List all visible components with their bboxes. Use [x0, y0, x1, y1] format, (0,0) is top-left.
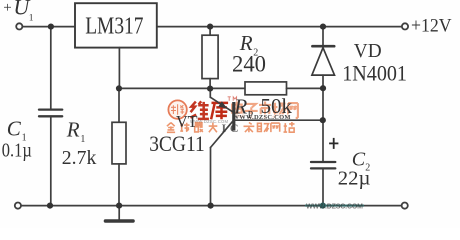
junction dot C2 bottom: [320, 203, 326, 209]
ground bar: [105, 219, 133, 222]
junction dot diode top: [320, 24, 326, 30]
terminal input top-left: [16, 23, 22, 29]
watermark char 维: [190, 101, 209, 119]
svg-text:0.1µ: 0.1µ: [2, 141, 32, 162]
label C1: [7, 117, 27, 144]
ground stub: [118, 206, 120, 220]
LABEL GROUP: [2, 0, 452, 189]
wire diode top: [322, 27, 324, 46]
watermark teal url center: [233, 114, 291, 121]
capacitor C1 plates: [39, 110, 62, 117]
label R2: [239, 31, 258, 59]
watermark char 库: [211, 103, 228, 119]
label C2 plus sign: [329, 138, 338, 149]
junction dot R1 bottom: [116, 203, 122, 209]
junction dot C1 bottom: [47, 203, 53, 209]
wire R2 top: [209, 27, 211, 36]
svg-text:+: +: [3, 0, 11, 16]
label RP: [233, 95, 253, 121]
wire top rail right: [157, 26, 402, 28]
svg-text:1N4001: 1N4001: [342, 61, 407, 86]
svg-text:C: C: [7, 117, 22, 141]
wire R1 bottom: [118, 164, 120, 206]
svg-text:LM317: LM317: [85, 14, 143, 40]
terminal bottom-left: [15, 203, 21, 209]
wire C1 bottom: [50, 117, 52, 205]
IC U1 LM317 box: [75, 3, 157, 47]
watermark chars 电子市场网: [232, 101, 298, 118]
wire diode bottom to C2: [322, 75, 324, 161]
svg-text:WWW.DZSC.COM: WWW.DZSC.COM: [306, 203, 363, 210]
resistor R1 body: [112, 122, 126, 164]
wire bottom rail: [21, 205, 401, 207]
diode VD cathode bar: [312, 45, 334, 48]
svg-text:P: P: [248, 110, 254, 121]
terminal output +12V top-right: [402, 23, 408, 29]
wire top rail left: [22, 26, 75, 28]
junction dot R2 top: [207, 24, 213, 30]
transistor VT emitter vertical: [209, 88, 211, 97]
SCHEMATIC GROUP: [15, 3, 408, 221]
svg-text:3CG11: 3CG11: [149, 131, 205, 156]
svg-text:2.7k: 2.7k: [62, 147, 97, 169]
junction dot RP right: [320, 85, 326, 91]
wire ADJ horizontal to RP: [119, 87, 210, 89]
junction dot R2 bottom: [207, 86, 213, 92]
wire R2 bottom: [209, 79, 211, 89]
wire C1 branch down from top rail: [50, 27, 52, 109]
transistor VT collector vertical: [210, 148, 212, 206]
svg-text:R: R: [233, 95, 247, 119]
WATERMARK GROUP: [167, 97, 298, 135]
wire LM317 ADJ pin down: [118, 48, 120, 89]
watermark teal url bottom overlay: [305, 203, 364, 210]
transistor VT base lead: [235, 119, 323, 121]
junction dot C1 top: [48, 24, 54, 30]
svg-text:22µ: 22µ: [338, 167, 371, 189]
wire R1 top: [118, 88, 120, 122]
capacitor C2 plates: [311, 162, 335, 168]
terminal bottom-right: [402, 203, 408, 209]
watermark small row 全球最大IC采购网站: [167, 123, 217, 133]
svg-text:1: 1: [80, 134, 85, 145]
watermark trademark mark: [228, 97, 237, 101]
watermark logo circle: [168, 100, 186, 118]
transistor VT emitter diagonal: [210, 97, 232, 112]
potentiometer RP body: [245, 82, 287, 95]
junction dot base node: [320, 117, 326, 123]
wire RP left lead: [210, 87, 245, 89]
transistor VT base bar: [232, 102, 235, 131]
transistor VT collector diagonal: [211, 121, 233, 147]
junction dot ADJ corner: [116, 85, 122, 91]
wire C2 bottom: [322, 169, 324, 205]
resistor R2 body: [202, 35, 218, 78]
junction dot collector bottom: [208, 203, 214, 209]
diode VD triangle: [312, 48, 335, 75]
svg-text:240: 240: [232, 52, 266, 78]
svg-text:50k: 50k: [261, 94, 293, 118]
label R1: [66, 117, 86, 145]
svg-text:R: R: [66, 117, 80, 141]
svg-text:VT: VT: [176, 112, 198, 131]
label C2: [352, 148, 370, 173]
transistor VT emitter arrow: [218, 101, 227, 108]
svg-text:VD: VD: [354, 40, 382, 62]
svg-text:+12V: +12V: [411, 16, 452, 37]
label +U1 input: [3, 0, 34, 24]
svg-text:1: 1: [29, 14, 34, 24]
wire RP right lead: [287, 87, 324, 89]
